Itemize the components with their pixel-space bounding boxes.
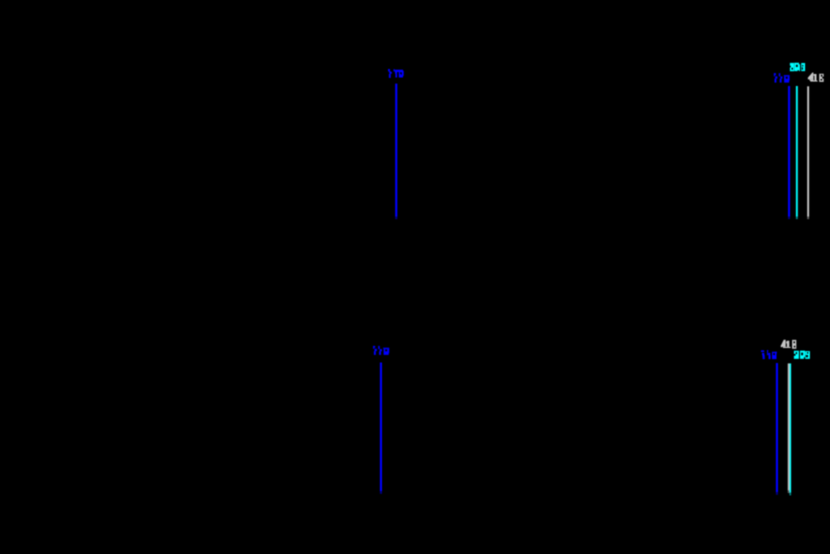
top cluster: label 398 (cyan, partially overdrawn)	[790, 63, 805, 72]
bottom spectrum: peak line 398 (cluster, cyan)	[789, 363, 791, 492]
top spectrum: peak line 398 (cluster, cyan)	[796, 86, 798, 217]
bottom spectrum: peak line 418 (cluster, gray)	[788, 363, 790, 490]
bottom spectrum: peak line 779 (cluster, blue)	[776, 363, 778, 492]
bottom cluster: label 398 (cyan, partially overdrawn)	[794, 351, 810, 359]
top spectrum: peak label 779 (left, blue, partially overdrawn)	[388, 69, 404, 78]
top spectrum: peak line 779 (cluster, blue)	[788, 86, 790, 217]
bottom cluster: label 418 (gray, partially overdrawn)	[781, 340, 797, 349]
bottom cluster: label 779 (blue, partially overdrawn)	[761, 350, 777, 359]
top spectrum: peak line 418 (cluster, gray)	[807, 86, 809, 216]
top spectrum: peak line m/z 779 (left, blue)	[395, 84, 397, 217]
top cluster: label 418 (gray, partially overdrawn)	[808, 73, 824, 82]
bottom spectrum: peak line 779 (left, blue)	[380, 363, 382, 492]
bottom spectrum: peak label 779 (left, blue, partially overdrawn)	[373, 346, 389, 355]
top cluster: label 779 (blue, partially overdrawn)	[774, 73, 790, 83]
